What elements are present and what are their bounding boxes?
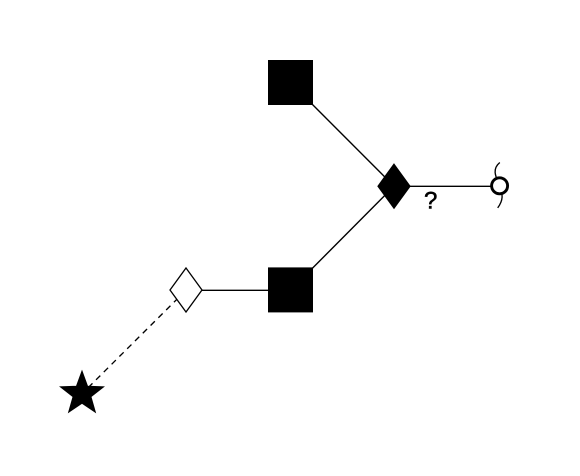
reducing-end circle	[492, 178, 508, 194]
square S1 (filled GalNAc, top)	[268, 60, 313, 105]
wire: link square2 to open diamond	[186, 289, 291, 291]
label ? (unknown linkage)	[425, 192, 436, 209]
wire: link diamond1 to reducing-end circle	[394, 185, 500, 187]
wire: dashed link open diamond to star	[82, 290, 186, 394]
wire: link diamond1 to square2	[291, 186, 395, 290]
wire: link square1 to diamond1	[291, 83, 395, 187]
reducing-end squiggle bracket	[495, 163, 502, 208]
square S2 (filled GalNAc, middle)	[268, 267, 313, 312]
open diamond D2 (white Kdn/unknown)	[170, 268, 202, 312]
diamond D1 (filled Neu5Ac)	[378, 164, 410, 208]
star (filled Xyl)	[60, 371, 103, 412]
